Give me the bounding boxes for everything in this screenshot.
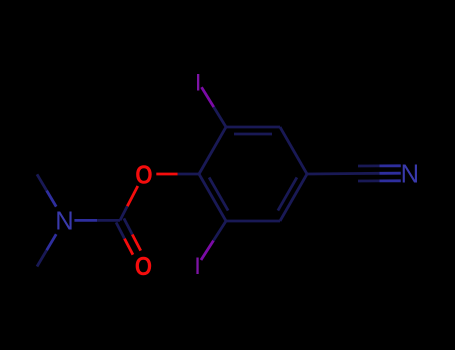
wire bond I top - C2r (I half, purple): [202, 87, 214, 107]
wire triple bond Cn#Nn upper line (N half, blue): [379, 164, 400, 167]
wire ring bond C6r-C1r: [199, 174, 226, 221]
wire bond I top - C2r (C half, navy): [214, 107, 226, 127]
wire double bond C2=O3 line b (O half, red): [125, 239, 133, 255]
wire double bond C2=O3 line a (C half, navy): [124, 218, 132, 234]
wire bond N1-C2 (N half, blue): [74, 219, 97, 222]
wire ring bond C2r-C3r: [226, 126, 280, 129]
wire ring inner double line C4r=C5r: [278, 177, 297, 210]
wire ring inner double line C6r=C1r: [209, 177, 228, 210]
wire bond N1-CH3 bottom (N half, blue): [47, 234, 57, 250]
wire triple bond Cn#Nn middle line (C half, navy): [358, 172, 379, 175]
wire triple bond Cn#Nn middle line (N half, blue): [379, 172, 400, 175]
svg-text:N: N: [55, 208, 73, 236]
wire double bond C2=O3 line b (C half, navy): [116, 222, 124, 238]
wire bond C2-O4 ester (C half, navy): [120, 206, 127, 220]
wire bond I bottom - C6r (I half, purple): [201, 241, 214, 261]
wire bond N1-CH3 top (N half, blue): [47, 191, 57, 207]
wire ring bond C3r-C4r: [280, 127, 307, 174]
svg-text:O: O: [135, 252, 152, 281]
wire ring bond C4r-C5r: [280, 174, 307, 221]
svg-text:N: N: [401, 160, 419, 188]
wire bond N1-C2 (C half, navy): [97, 219, 120, 222]
wire bond N1-CH3 top (C half, navy): [37, 174, 47, 190]
wire bond O4-C1r (C half, navy): [178, 173, 199, 176]
svg-text:I: I: [194, 253, 201, 280]
wire bond C4r-Cn nitrile stem (navy): [307, 172, 358, 175]
wire triple bond Cn#Nn lower line (C half, navy): [358, 179, 379, 182]
wire double bond C2=O3 line a (O half, red): [132, 235, 140, 251]
wire bond I bottom - C6r (C half, navy): [214, 221, 227, 241]
svg-text:I: I: [195, 69, 202, 96]
wire bond C2-O4 ester (O half, red): [127, 186, 138, 206]
wire bond N1-CH3 bottom (C half, navy): [37, 250, 47, 266]
wire triple bond Cn#Nn upper line (C half, navy): [358, 164, 379, 167]
wire ring bond C1r-C2r: [199, 127, 226, 174]
svg-text:O: O: [135, 161, 152, 190]
wire ring bond C5r-C6r: [226, 220, 280, 223]
wire ring inner double line C2r=C3r: [234, 133, 272, 136]
wire triple bond Cn#Nn lower line (N half, blue): [379, 179, 400, 182]
wire bond O4-C1r (O half, red): [156, 173, 177, 176]
